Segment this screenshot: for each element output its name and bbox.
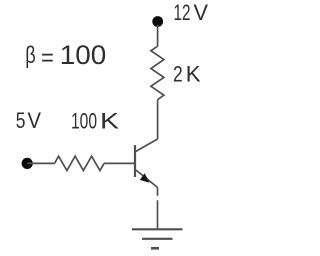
wire emitter to ground (upper) bbox=[157, 187, 159, 196]
wire 5V dot to resistor R_B bbox=[27, 162, 54, 164]
svg-text:2: 2 bbox=[173, 62, 183, 87]
label 2 K bbox=[173, 62, 201, 87]
svg-text:V: V bbox=[194, 0, 209, 25]
svg-text:β: β bbox=[25, 42, 36, 69]
svg-text:12: 12 bbox=[174, 0, 191, 25]
label 12 V bbox=[174, 0, 209, 25]
wire resistor R_C bottom to collector bbox=[157, 100, 159, 139]
svg-text:100: 100 bbox=[60, 40, 107, 70]
ground bar 1 bbox=[132, 228, 183, 230]
node 12V terminal dot bbox=[152, 16, 163, 27]
transistor Q1 emitter arrow bbox=[140, 173, 150, 183]
resistor R_B 100K bbox=[55, 156, 105, 170]
label 5 V bbox=[16, 108, 41, 133]
transistor Q1 emitter lead bbox=[136, 170, 158, 187]
ground bar 2 bbox=[142, 238, 173, 240]
transistor Q1 base bar bbox=[134, 145, 136, 177]
wire 12V dot to resistor R_C top bbox=[157, 25, 159, 46]
ground bar 3 bbox=[151, 247, 159, 250]
svg-text:=: = bbox=[41, 44, 54, 71]
wire resistor R_B to base bbox=[104, 162, 135, 164]
label beta = 100 bbox=[25, 40, 106, 71]
transistor Q1 collector lead bbox=[135, 139, 157, 152]
svg-text:100: 100 bbox=[71, 109, 97, 134]
svg-text:V: V bbox=[28, 108, 42, 133]
resistor R_C 2K bbox=[151, 46, 164, 99]
node 5V terminal dot bbox=[22, 158, 33, 169]
svg-text:K: K bbox=[100, 109, 119, 134]
label 100 K bbox=[71, 109, 119, 134]
svg-text:K: K bbox=[186, 62, 201, 87]
svg-text:5: 5 bbox=[16, 108, 26, 133]
wire emitter to ground (lower) bbox=[157, 200, 159, 229]
